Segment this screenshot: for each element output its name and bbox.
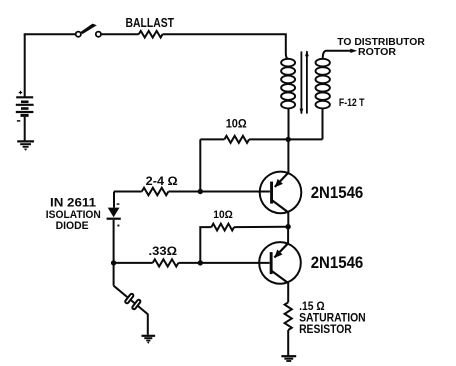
wire diode top xyxy=(113,192,115,208)
wire base row Q1 right xyxy=(168,191,270,193)
resistor .15 ohm saturation xyxy=(285,302,292,330)
svg-text:10Ω: 10Ω xyxy=(226,116,247,130)
transistor Q1 xyxy=(260,172,302,214)
node junction .33 right xyxy=(198,260,203,265)
wire 10ohm row left xyxy=(200,138,224,140)
svg-text:F-12 T: F-12 T xyxy=(339,97,365,109)
resistor 10 ohm R4 xyxy=(211,224,234,231)
wire battery to ground xyxy=(24,117,26,141)
svg-text:BALLAST: BALLAST xyxy=(126,15,175,30)
svg-text:2-4 Ω: 2-4 Ω xyxy=(146,174,178,188)
wire secondary bottom lead xyxy=(322,108,324,139)
wire switch to ballast xyxy=(101,33,139,35)
wire battery top vertical xyxy=(24,34,26,97)
svg-text:RESISTOR: RESISTOR xyxy=(299,324,352,336)
wire Q1 collector down xyxy=(287,212,289,226)
wire top horizontal to switch xyxy=(24,33,76,35)
wire 10ohm2 right xyxy=(234,226,288,228)
wire .33 row left xyxy=(114,262,153,264)
resistor 10 ohm R2 xyxy=(224,136,249,143)
switch S1 xyxy=(76,24,101,37)
svg-text:2N1546: 2N1546 xyxy=(311,254,364,272)
breaker points contact xyxy=(125,293,142,310)
resistor .33 ohm xyxy=(153,259,179,266)
svg-text:SATURATION: SATURATION xyxy=(299,313,366,325)
wire Q2 collector down xyxy=(287,283,289,302)
node junction .33 left xyxy=(111,260,116,265)
svg-text:2N1546: 2N1546 xyxy=(311,184,364,202)
ground (battery) xyxy=(17,141,34,150)
node junction base Q1 xyxy=(198,189,203,194)
resistor BALLAST xyxy=(139,31,163,38)
wire base row Q1 left xyxy=(114,191,142,193)
svg-text:.33Ω: .33Ω xyxy=(149,246,178,258)
svg-text:DIODE: DIODE xyxy=(56,220,89,232)
resistor 2-4 ohm R1 xyxy=(142,188,169,196)
svg-text:ROTOR: ROTOR xyxy=(358,46,396,58)
wire junction to Q2 emitter xyxy=(287,227,289,244)
wire .15 to ground xyxy=(287,330,289,355)
node junction between transistors xyxy=(285,224,290,229)
svg-text:10Ω: 10Ω xyxy=(213,209,233,221)
ground (saturation resistor) xyxy=(281,356,296,361)
wire transformer bottom xyxy=(288,138,322,140)
diode IN2611 xyxy=(107,204,121,226)
svg-text:.15 Ω: .15 Ω xyxy=(299,301,325,313)
svg-text:IN 2611: IN 2611 xyxy=(50,198,97,210)
transistor Q2 xyxy=(259,242,301,284)
transformer T1 primary coil xyxy=(281,59,295,109)
wire diode bottom xyxy=(113,220,115,263)
wire junction to Q1 emitter xyxy=(287,139,289,173)
transformer T1 secondary coil xyxy=(316,59,330,109)
wire .33 row right xyxy=(178,262,269,264)
node junction transformer bottom xyxy=(286,137,291,142)
battery B1 xyxy=(16,91,34,121)
wire breaker diagonal xyxy=(114,286,148,335)
arrow to distributor xyxy=(350,49,357,53)
transformer core xyxy=(300,50,309,114)
ground (breaker points) xyxy=(142,336,156,344)
wire breaker points top xyxy=(113,263,115,286)
wire 10ohm2 left vertical xyxy=(200,227,211,263)
wire secondary top lead to arrow xyxy=(323,51,352,59)
wire 10ohm left vertical xyxy=(199,139,201,191)
wire 10ohm row right xyxy=(249,138,288,140)
wire ballast to transformer top corner xyxy=(163,34,289,59)
wire primary bottom lead xyxy=(288,108,290,139)
